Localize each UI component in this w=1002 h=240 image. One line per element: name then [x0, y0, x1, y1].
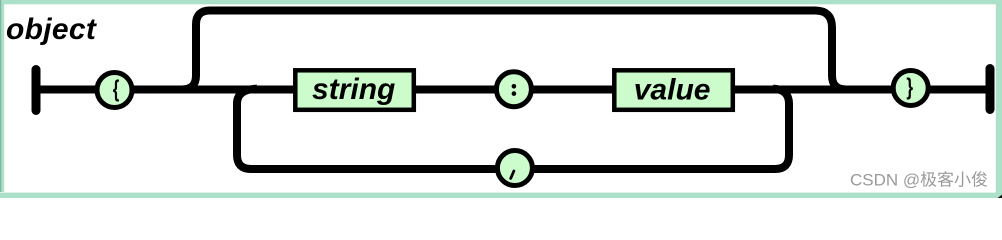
wire repeat loop (comma loop below): [237, 89, 789, 169]
border top: [0, 0, 1002, 4]
end terminal: [986, 69, 995, 110]
wire main line: [38, 86, 988, 94]
border left: [0, 0, 4, 192]
svg-text:CSDN @: CSDN @: [850, 171, 920, 190]
svg-text:{: {: [113, 77, 120, 102]
svg-text:object: object: [6, 13, 98, 46]
node string (terminal box): [295, 70, 414, 110]
node : (colon circle): [496, 72, 531, 107]
border right: [996, 0, 1002, 198]
node value (terminal box): [614, 70, 733, 110]
watermark hanzi 极客小俊: [921, 171, 988, 187]
wire bypass (empty-object skip path over the top): [170, 11, 858, 90]
svg-text:}: }: [906, 75, 913, 100]
border bottom: [0, 193, 1002, 198]
node , (comma circle on loop): [497, 151, 532, 186]
start terminal: [32, 70, 41, 111]
corner handle bottom-right: [998, 195, 1002, 198]
svg-text:string: string: [312, 73, 395, 106]
node } (close brace circle): [893, 71, 928, 106]
node { (open brace circle): [97, 73, 132, 108]
svg-text:value: value: [634, 73, 711, 106]
